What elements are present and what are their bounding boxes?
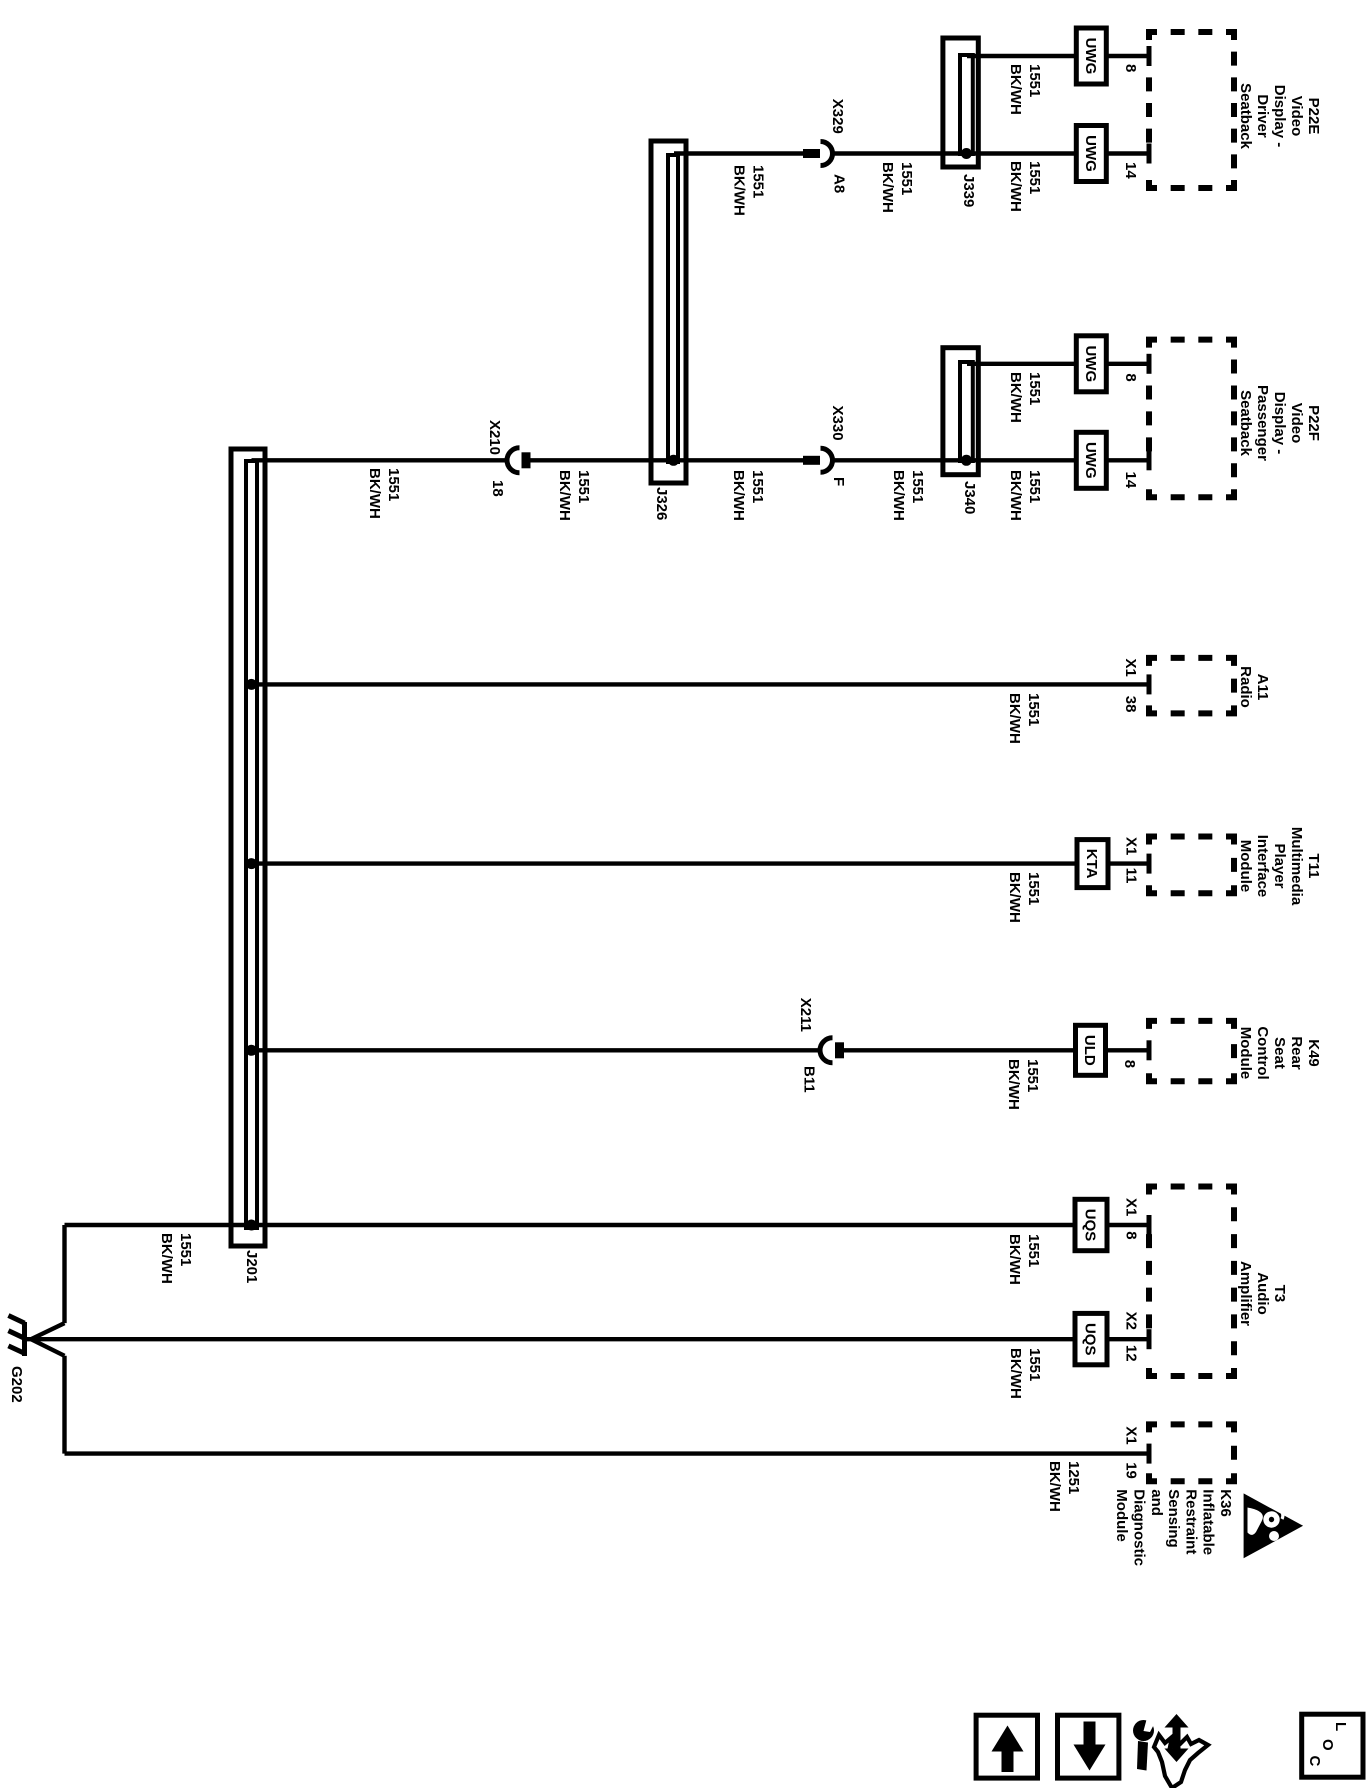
component T3 Audio Amplifier (dashed box) <box>1149 1187 1234 1377</box>
wire K49 pin 8 to inline connector X211 (1551 BK/WH) <box>844 1048 1149 1052</box>
component T11 Multimedia Player Interface Module (dashed box) <box>1149 837 1234 894</box>
connector code box UWG (P22F pin 8) <box>1076 336 1106 392</box>
wire X329 to splice pack J326 (1551 BK/WH) <box>674 151 803 155</box>
junction dot J201 / A11 wire <box>246 679 257 690</box>
connector code box UQS (T3 X2) <box>1075 1313 1107 1364</box>
navigation icon box: down arrow <box>1058 1715 1119 1778</box>
splice pack J326 outer box <box>651 141 686 483</box>
wire X210 to splice pack J201 (1551 BK/WH) <box>252 458 508 462</box>
component K36 Inflatable Restraint Sensing and Diagnostic Module (dashed box) <box>1149 1424 1234 1481</box>
pin tick K49 pin 8 <box>1147 1040 1152 1060</box>
LOC page-location icon box <box>1302 1714 1363 1777</box>
junction dot J201 / T3 X1 wire <box>246 1220 257 1231</box>
junction dot J339 / pin-14 wire <box>961 148 972 159</box>
wire X211 to J201 (1551 BK/WH) <box>252 1048 821 1052</box>
service/diagnostic icon: wrench with arrows <box>1133 1714 1208 1788</box>
splice pack J339 outer box <box>943 38 978 167</box>
connector code box UWG (P22F pin 14) <box>1076 432 1106 488</box>
pin tick P22E pin 8 <box>1147 46 1152 66</box>
connector code box UWG (P22E pin 14) <box>1076 126 1106 182</box>
connector code box UQS (T3 X1) <box>1075 1199 1107 1250</box>
pin tick T3 X2 12 <box>1147 1329 1152 1349</box>
splice pack J326 bus bar <box>668 155 678 462</box>
down arrow glyph <box>1074 1722 1106 1771</box>
component A11 Radio (dashed box) <box>1149 658 1234 714</box>
pin tick T3 X1 8 <box>1147 1215 1152 1235</box>
inline connector X329 (pin A8) <box>803 142 833 166</box>
ground G202 symbol <box>8 1316 24 1357</box>
inline connector X211 (pin B11) <box>820 1038 844 1063</box>
wire X330 through J326 to inline connector X210 (1551 BK/WH) <box>531 458 804 462</box>
splice pack J201 bus bar <box>246 461 257 1228</box>
pin tick K36 X1 19 <box>1147 1444 1152 1464</box>
wire ground branch horizontal (left, to T3 X1 wire) <box>62 1225 66 1323</box>
splice pack J340 outer box <box>943 348 978 475</box>
wire A11 X1 38 to J201 (1551 BK/WH) <box>252 682 1150 686</box>
pin tick T11 X1 11 <box>1147 854 1152 874</box>
component P22F Video Display - Passenger Seatback (dashed box) <box>1149 340 1234 498</box>
junction dot J326 / X330 wire <box>668 455 679 466</box>
splice pack J340 bus bar <box>960 362 973 461</box>
junction dot J201 / K49 wire <box>246 1045 257 1056</box>
junction dot J340 / pin-14 wire <box>961 455 972 466</box>
wire P22F pin 8 to splice pack J340 (1551 BK/WH) <box>967 362 1149 366</box>
wire P22E pin 8 to splice pack J339 (1551 BK/WH) <box>967 54 1149 58</box>
connector code box UWG (P22E pin 8) <box>1076 28 1106 84</box>
splice pack J339 bus bar <box>960 55 973 154</box>
wire T11 X1 11 to J201 (1551 BK/WH) <box>252 861 1150 865</box>
pin tick A11 X1 38 <box>1147 674 1152 694</box>
junction dot J201 / T11 wire <box>246 858 257 869</box>
splice pack J201 outer box <box>231 449 265 1246</box>
connector code box ULD (K49) <box>1076 1025 1106 1075</box>
component P22E Video Display - Driver Seatback (dashed box) <box>1149 32 1234 188</box>
component K49 Rear Seat Control Module (dashed box) <box>1149 1021 1234 1081</box>
pin tick P22F pin 8 <box>1147 354 1152 374</box>
up arrow glyph <box>992 1726 1024 1773</box>
wire P22E pin 14 to inline connector X329 (1551 BK/WH) <box>833 151 1150 155</box>
pin tick P22F pin 14 <box>1147 450 1152 470</box>
inline connector X210 (pin 18) <box>507 448 530 473</box>
wire ground branch diagonal (left) <box>31 1323 65 1339</box>
wire T3 X2 12 to ground G202 (1551 BK/WH) <box>26 1337 1149 1341</box>
wire T3 X1 8 through J201 to ground branch (1551 BK/WH) <box>65 1223 1150 1227</box>
airbag SIR warning triangle icon <box>1244 1493 1304 1558</box>
wire K36 X1 19 to ground branch (1251 BK/WH) <box>65 1451 1150 1455</box>
wire ground branch horizontal (right, to K36 wire) <box>62 1356 66 1454</box>
pin tick P22E pin 14 <box>1147 144 1152 164</box>
connector code box KTA (T11) <box>1077 840 1108 888</box>
inline connector X330 (pin F) <box>803 448 833 472</box>
wire ground branch diagonal (right) <box>31 1339 65 1356</box>
navigation icon box: up arrow <box>976 1715 1037 1778</box>
wire P22F pin 14 through J340 to inline connector X330 (1551 BK/WH) <box>833 458 1150 462</box>
